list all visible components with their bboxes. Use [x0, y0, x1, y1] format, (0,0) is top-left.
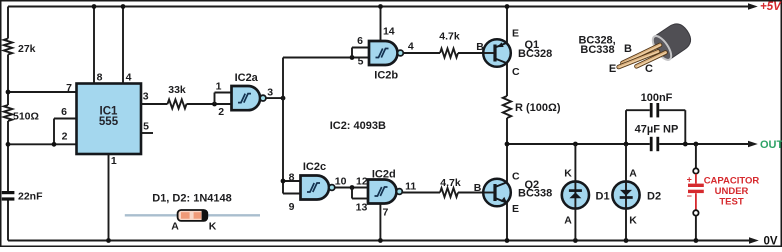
svg-text:555: 555	[99, 116, 119, 128]
resistor 4.7k (bottom)	[440, 188, 458, 197]
svg-text:3: 3	[143, 91, 149, 103]
wire IC2d pin 7 to 0V	[379, 204, 381, 241]
svg-text:K: K	[209, 221, 217, 233]
svg-text:8: 8	[289, 171, 295, 183]
NAND gate IC2d	[368, 180, 397, 204]
svg-text:5: 5	[143, 120, 149, 132]
output node wire	[507, 143, 650, 145]
svg-text:7: 7	[382, 207, 388, 219]
svg-text:−: −	[687, 191, 692, 201]
NAND gate IC2c	[301, 176, 330, 200]
svg-text:4: 4	[408, 40, 414, 52]
NAND gate IC2a	[232, 86, 261, 110]
svg-text:33k: 33k	[168, 84, 186, 96]
wire Q2 emitter to 0V	[506, 203, 508, 241]
svg-text:D2: D2	[647, 191, 661, 203]
IC1 pin 5 stub	[141, 132, 153, 134]
wire IC2c output to IC2d	[335, 187, 368, 189]
node A: gate drive column	[281, 96, 286, 101]
svg-text:BC338: BC338	[580, 44, 614, 56]
svg-text:3: 3	[267, 87, 273, 99]
wire node column to IC2b inputs	[283, 57, 369, 59]
svg-text:10: 10	[335, 176, 347, 188]
svg-text:IC2b: IC2b	[374, 69, 398, 81]
svg-text:2: 2	[218, 106, 224, 118]
svg-text:BC328: BC328	[518, 48, 552, 60]
svg-text:7: 7	[66, 82, 72, 94]
wire IC2b output to 4.7k	[403, 52, 440, 54]
svg-text:K: K	[564, 168, 572, 180]
wire R to output node	[506, 118, 508, 144]
svg-text:100nF: 100nF	[641, 92, 673, 104]
svg-text:IC2d: IC2d	[372, 169, 396, 181]
svg-text:R (100Ω): R (100Ω)	[515, 102, 561, 114]
svg-text:8: 8	[97, 71, 103, 83]
node: rail to pin2 junction	[6, 142, 11, 147]
svg-text:C: C	[512, 171, 520, 183]
wire 4.7k to Q2 base	[458, 192, 495, 194]
capacitor 100nF (parallel branch)	[625, 110, 627, 144]
svg-text:27k: 27k	[18, 43, 36, 55]
wire IC2b pin 14 to +5V	[380, 7, 382, 42]
svg-text:9: 9	[289, 201, 295, 213]
svg-text:6: 6	[61, 106, 67, 118]
wire IC1 pin 4 to +5V	[122, 7, 124, 84]
test terminal (bottom)	[693, 210, 698, 215]
svg-text:BC338: BC338	[518, 188, 552, 200]
wire Q2 collector to output node	[506, 144, 508, 182]
wire tying IC2b pins 5 and 6	[351, 48, 353, 58]
left supply branch wire	[7, 7, 9, 39]
TO-92 legs	[619, 45, 666, 67]
svg-text:4.7k: 4.7k	[439, 31, 460, 43]
wire node column to IC2c inputs	[283, 180, 301, 182]
svg-text:A: A	[629, 168, 637, 180]
svg-text:4: 4	[126, 71, 132, 83]
wire tying pins 2 and 6	[53, 119, 55, 145]
svg-text:IC2c: IC2c	[303, 161, 326, 173]
svg-text:4.7k: 4.7k	[440, 177, 461, 189]
svg-text:6: 6	[357, 35, 363, 47]
resistor 27k	[4, 39, 12, 55]
svg-text:E: E	[609, 63, 616, 75]
svg-text:14: 14	[383, 26, 395, 38]
svg-text:5: 5	[358, 56, 364, 68]
wire to test terminal	[695, 144, 697, 168]
resistor R (100R)	[503, 96, 511, 118]
svg-text:C: C	[512, 66, 520, 78]
resistor 4.7k (top)	[440, 49, 458, 58]
svg-text:22nF: 22nF	[18, 191, 43, 203]
diode D2 1N4148	[624, 238, 629, 243]
svg-text:0V: 0V	[764, 235, 778, 247]
wire IC2d output to 4.7k	[402, 192, 440, 194]
svg-text:12: 12	[356, 176, 368, 188]
wire tying IC2d pins 12 and 13	[351, 188, 353, 199]
capacitor under test symbol	[695, 174, 697, 184]
svg-text:IC2: 4093B: IC2: 4093B	[330, 120, 386, 132]
wire IC1 pin3 to 33k	[141, 103, 168, 105]
svg-text:UNDER: UNDER	[715, 186, 749, 197]
wire IC2a output to node column	[266, 97, 283, 99]
wire test terminal to 0V	[695, 216, 697, 241]
resistor 510R	[4, 105, 12, 121]
transistor Q1 BC328 (PNP)	[483, 39, 511, 67]
transistor Q2 BC338 (NPN)	[483, 179, 511, 207]
wire to IC1 pin 7	[8, 91, 77, 93]
NAND gate IC2b	[369, 41, 398, 65]
svg-text:B: B	[474, 182, 482, 194]
svg-text:+5V: +5V	[760, 1, 782, 13]
svg-text:13: 13	[356, 202, 368, 214]
node: IC2a input junction	[212, 102, 217, 107]
svg-text:A: A	[564, 215, 572, 227]
wire to IC1 pin 2	[8, 143, 77, 145]
svg-text:510Ω: 510Ω	[13, 111, 39, 123]
node: rail to pin7 junction	[6, 90, 11, 95]
svg-text:11: 11	[405, 181, 416, 193]
wire Q1 emitter to +5V	[506, 7, 508, 43]
svg-text:TEST: TEST	[719, 196, 743, 207]
svg-text:E: E	[512, 28, 519, 40]
capacitor 47uF NP (series)	[650, 137, 653, 151]
svg-text:1: 1	[216, 81, 222, 93]
TO-92 package drawing	[649, 20, 695, 63]
node: R/Q2 junction	[505, 142, 510, 147]
svg-text:A: A	[171, 221, 179, 233]
capacitor 22nF	[2, 191, 15, 194]
diode D1 1N4148	[573, 142, 578, 147]
0V ground rail	[8, 240, 750, 242]
svg-text:IC2a: IC2a	[235, 72, 259, 84]
svg-text:+: +	[687, 174, 692, 184]
wire 4.7k to Q1 base	[458, 52, 495, 54]
svg-text:1: 1	[111, 155, 117, 167]
resistor 33k	[168, 100, 187, 109]
svg-text:E: E	[512, 203, 519, 215]
svg-text:CAPACITOR: CAPACITOR	[704, 175, 760, 186]
test terminal (top)	[693, 168, 698, 173]
svg-text:K: K	[629, 215, 637, 227]
node: CUT branch junction	[694, 142, 699, 147]
op-amp/timer IC1 555	[77, 84, 142, 155]
wire IC1 pin 8 to +5V	[93, 7, 95, 84]
svg-text:B: B	[624, 43, 632, 55]
svg-text:2: 2	[62, 131, 68, 143]
wire tying IC2a pins 1 and 2	[214, 93, 216, 105]
svg-text:D1: D1	[596, 191, 610, 203]
svg-text:OUT: OUT	[760, 139, 782, 151]
svg-text:D1, D2: 1N4148: D1, D2: 1N4148	[152, 193, 232, 205]
svg-text:C: C	[645, 63, 653, 75]
+5V supply rail	[8, 6, 749, 8]
wire 33k to IC2a input	[187, 103, 232, 105]
wire IC1 pin 1 to 0V	[108, 154, 110, 241]
svg-text:47µF NP: 47µF NP	[635, 124, 679, 136]
wire Q1 collector to R	[506, 63, 508, 96]
